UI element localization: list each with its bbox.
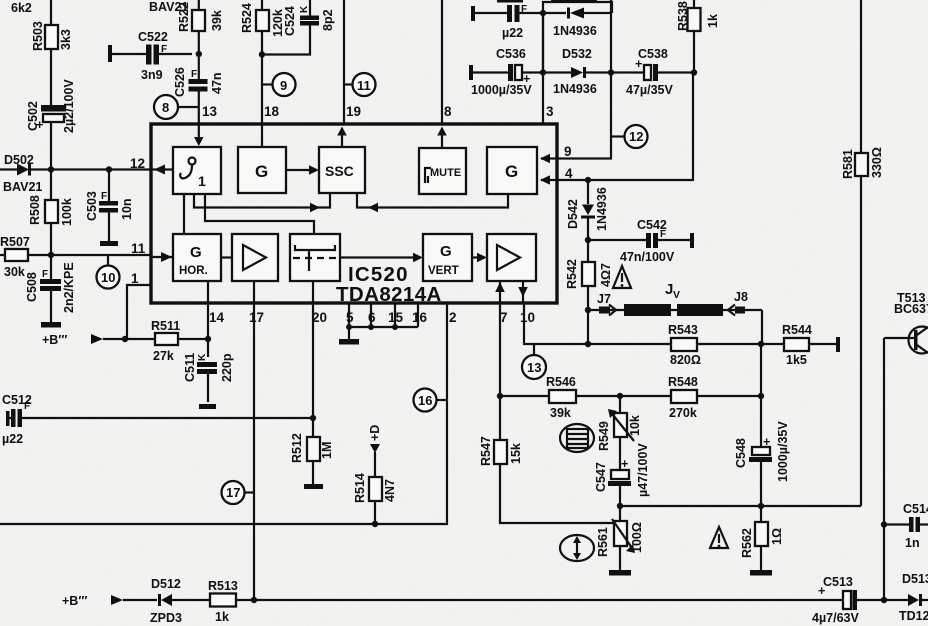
capacitor C547 bbox=[594, 443, 650, 506]
pin 19 wire from top bbox=[344, 0, 361, 124]
svg-text:1: 1 bbox=[198, 173, 206, 189]
rheostat R561 bbox=[596, 506, 644, 570]
capacitor C502 bbox=[26, 79, 76, 133]
pin 10 wire bbox=[520, 303, 671, 347]
svg-text:R524: R524 bbox=[240, 3, 254, 33]
capacitor C514 bbox=[884, 502, 928, 550]
wire vertical left rail x=51 top bbox=[50, 0, 52, 322]
wire jumper row bbox=[588, 310, 762, 344]
svg-text:C536: C536 bbox=[496, 47, 526, 61]
capacitor C512 bbox=[2, 393, 32, 446]
wire R542 down to pin10 row bbox=[587, 310, 589, 344]
svg-text:220p: 220p bbox=[220, 353, 234, 382]
svg-text:G: G bbox=[255, 162, 268, 181]
resistor label 6k2 (cut component top-left) bbox=[11, 1, 32, 15]
resistor R543 bbox=[668, 323, 784, 367]
diode D531 bbox=[543, 2, 612, 38]
pin 8 arrow from MUTE bbox=[437, 127, 447, 149]
svg-text:D513: D513 bbox=[902, 572, 928, 586]
bottom rail +B prime feed bbox=[62, 594, 928, 608]
svg-text:ZPD3: ZPD3 bbox=[150, 611, 182, 625]
svg-text:8: 8 bbox=[444, 104, 452, 119]
svg-text:C503: C503 bbox=[85, 191, 99, 221]
svg-text:30k: 30k bbox=[4, 265, 25, 279]
svg-text:µ22: µ22 bbox=[2, 432, 23, 446]
svg-text:C547: C547 bbox=[594, 462, 608, 492]
svg-text:2µ2/100V: 2µ2/100V bbox=[62, 79, 76, 133]
svg-text:4: 4 bbox=[565, 166, 573, 181]
svg-text:10n: 10n bbox=[120, 198, 134, 220]
svg-text:3n9: 3n9 bbox=[141, 68, 163, 82]
pin 9 arrow into G right bbox=[540, 154, 557, 164]
transistor T513 bbox=[884, 291, 928, 354]
svg-text:39k: 39k bbox=[550, 406, 571, 420]
resistor R544 bbox=[782, 323, 840, 367]
svg-text:1n: 1n bbox=[905, 536, 920, 550]
wire C526 to pin 13 bbox=[198, 92, 200, 125]
capacitor C508 bbox=[25, 262, 76, 313]
svg-text:1Ω: 1Ω bbox=[770, 528, 784, 545]
svg-text:R546: R546 bbox=[546, 375, 576, 389]
feedback wire block1 to SSC bottom bbox=[194, 193, 330, 212]
svg-text:F: F bbox=[101, 191, 107, 202]
svg-text:1k: 1k bbox=[706, 14, 720, 28]
svg-text:4Ω7: 4Ω7 bbox=[599, 263, 613, 287]
connector J8 bbox=[728, 290, 748, 316]
svg-text:3k3: 3k3 bbox=[59, 29, 73, 50]
svg-text:4µ7/63V: 4µ7/63V bbox=[812, 611, 859, 625]
svg-text:20: 20 bbox=[312, 310, 327, 325]
svg-text:R512: R512 bbox=[290, 433, 304, 463]
svg-text:K: K bbox=[197, 353, 208, 361]
jumper link Jv bars bbox=[624, 281, 723, 316]
resistor R511 bbox=[151, 319, 180, 363]
resistor R548 bbox=[668, 375, 698, 420]
svg-text:F: F bbox=[660, 229, 666, 240]
resistor R581 long right rail bbox=[841, 0, 884, 506]
svg-text:R547: R547 bbox=[479, 436, 493, 466]
svg-text:2n2/KPE: 2n2/KPE bbox=[62, 262, 76, 313]
block ramp generator bbox=[290, 234, 340, 281]
capacitor C522 bbox=[108, 30, 192, 82]
svg-text:F: F bbox=[161, 44, 167, 55]
svg-text:19: 19 bbox=[346, 104, 361, 119]
capacitor C526 bbox=[173, 67, 224, 97]
svg-text:C548: C548 bbox=[734, 438, 748, 468]
svg-text:47n: 47n bbox=[210, 72, 224, 94]
resistor R547 bbox=[479, 436, 620, 523]
node 9 bbox=[262, 73, 296, 96]
capacitor C548 bbox=[734, 344, 790, 506]
capacitor C536 bbox=[469, 47, 543, 97]
svg-text:D542: D542 bbox=[566, 199, 580, 229]
block G VERT bbox=[423, 234, 472, 281]
svg-text:15k: 15k bbox=[509, 443, 523, 464]
svg-text:R542: R542 bbox=[565, 259, 579, 289]
pin 11 input arrow bbox=[151, 252, 173, 262]
svg-text:C514: C514 bbox=[903, 502, 928, 516]
svg-text:R511: R511 bbox=[151, 319, 180, 333]
svg-text:TDA8214A: TDA8214A bbox=[336, 283, 442, 306]
potentiometer R549 bbox=[597, 396, 642, 470]
pin 18 stub bbox=[261, 124, 263, 147]
svg-text:47µ/35V: 47µ/35V bbox=[626, 83, 673, 97]
svg-text:5: 5 bbox=[346, 310, 354, 325]
svg-text:2: 2 bbox=[449, 310, 457, 325]
block SSC bbox=[319, 147, 365, 193]
wire amp1 bottom to pin 17 bbox=[253, 281, 255, 303]
wire pin3 top rail bbox=[542, 13, 544, 73]
svg-text:1000µ/35V: 1000µ/35V bbox=[776, 421, 790, 482]
resistor R512 bbox=[290, 433, 334, 484]
capacitor C542 bbox=[588, 218, 694, 264]
svg-text:6: 6 bbox=[368, 310, 376, 325]
pin 13 label bbox=[202, 104, 218, 119]
node 10 bbox=[97, 255, 120, 289]
svg-text:C508: C508 bbox=[25, 272, 39, 302]
resistor R522 bbox=[177, 0, 224, 79]
pin 12 label bbox=[130, 156, 145, 171]
pin 18 label bbox=[264, 104, 280, 119]
pin 1 wire bbox=[127, 271, 151, 339]
pin 11 label bbox=[131, 241, 146, 256]
ground below C508 bbox=[41, 322, 61, 328]
node junction C536 D532 bbox=[540, 69, 546, 75]
svg-text:V: V bbox=[673, 289, 680, 301]
svg-text:1N4936: 1N4936 bbox=[595, 187, 609, 231]
warning triangle near R542 bbox=[613, 266, 631, 288]
svg-text:C502: C502 bbox=[26, 101, 40, 131]
resistor R503 bbox=[31, 21, 73, 51]
svg-text:TD12: TD12 bbox=[899, 609, 928, 623]
pin 12 output arrow bbox=[151, 165, 173, 175]
node junction D542 C542 bbox=[585, 237, 591, 243]
pin 2 wire loop bbox=[0, 303, 457, 527]
svg-text:12: 12 bbox=[130, 156, 145, 171]
diode D532 bbox=[543, 47, 611, 96]
pin 4 route wire bbox=[557, 73, 693, 184]
pin 13 arrow into block 1 bbox=[194, 124, 204, 146]
svg-text:270k: 270k bbox=[669, 406, 697, 420]
svg-text:100k: 100k bbox=[60, 198, 74, 226]
capacitor C532 bbox=[471, 4, 543, 40]
IC520 box bbox=[151, 124, 557, 303]
warning triangle near R562 bbox=[710, 527, 728, 548]
block G HOR bbox=[173, 234, 221, 281]
svg-text:R561: R561 bbox=[596, 527, 610, 557]
svg-text:11: 11 bbox=[131, 241, 146, 256]
svg-text:1000µ/35V: 1000µ/35V bbox=[471, 83, 532, 97]
svg-text:1k5: 1k5 bbox=[786, 353, 807, 367]
ground below R561 bbox=[609, 570, 631, 576]
svg-text:12: 12 bbox=[629, 129, 643, 144]
svg-text:D512: D512 bbox=[151, 577, 181, 591]
svg-text:10: 10 bbox=[520, 310, 535, 325]
svg-text:100Ω: 100Ω bbox=[630, 522, 644, 553]
pin 4 arrow into G right bbox=[540, 175, 557, 185]
svg-text:R581: R581 bbox=[841, 149, 855, 179]
diode D542 bbox=[566, 180, 609, 240]
node 8 bbox=[154, 95, 199, 119]
wire amp2 to pin 7 arrow up bbox=[495, 281, 505, 303]
svg-text:C511: C511 bbox=[183, 353, 197, 382]
ground below R512 bbox=[304, 484, 323, 489]
svg-text:F: F bbox=[24, 401, 30, 412]
svg-text:R549: R549 bbox=[597, 421, 611, 451]
capacitor C538 bbox=[611, 47, 694, 97]
block sync separator 1 bbox=[173, 147, 221, 194]
block amp 2 bbox=[487, 234, 536, 281]
svg-text:17: 17 bbox=[226, 485, 240, 500]
capacitor C513 bbox=[812, 575, 859, 625]
node 16 bbox=[414, 389, 448, 412]
wire C512 to pin20 bbox=[22, 417, 313, 419]
svg-text:7: 7 bbox=[500, 310, 508, 325]
diode D512 bbox=[150, 577, 182, 625]
node junction D532 C538 bbox=[608, 69, 614, 75]
svg-text:27k: 27k bbox=[153, 349, 174, 363]
svg-text:16: 16 bbox=[412, 310, 428, 325]
svg-text:D502: D502 bbox=[4, 153, 34, 167]
svg-text:C526: C526 bbox=[173, 67, 187, 97]
wire block1 to ramp block bbox=[205, 194, 314, 234]
svg-text:SSC: SSC bbox=[325, 163, 354, 179]
svg-text:R538: R538 bbox=[676, 1, 690, 31]
svg-text:6k2: 6k2 bbox=[11, 1, 32, 15]
svg-text:C513: C513 bbox=[823, 575, 853, 589]
svg-text:+D: +D bbox=[368, 425, 382, 441]
svg-text:J8: J8 bbox=[734, 290, 748, 304]
svg-text:+B′′′: +B′′′ bbox=[42, 333, 67, 347]
svg-text:µ22: µ22 bbox=[502, 26, 523, 40]
pin 17 wire bbox=[249, 303, 264, 600]
capacitor C503 bbox=[85, 170, 134, 242]
pin 3 wire bbox=[543, 13, 554, 124]
capacitor C524 bbox=[262, 0, 335, 55]
pin 19 arrow from SSC bbox=[337, 127, 347, 148]
svg-text:R507: R507 bbox=[0, 235, 30, 249]
svg-text:BAV21: BAV21 bbox=[3, 180, 42, 194]
svg-text:1N4936: 1N4936 bbox=[553, 24, 597, 38]
svg-text:R522: R522 bbox=[177, 2, 191, 32]
resistor R513 bbox=[208, 579, 238, 624]
wire G to SSC arrow bbox=[286, 165, 319, 175]
wire G HOR to amp1 bbox=[221, 256, 232, 258]
node junction top rail bbox=[540, 10, 546, 16]
wire row y=506 bbox=[617, 503, 861, 509]
pin 8 wire from top bbox=[442, 0, 452, 124]
svg-text:F: F bbox=[191, 69, 197, 80]
wire row y=396 bbox=[500, 393, 764, 399]
svg-text:11: 11 bbox=[357, 78, 371, 93]
block amp 1 bbox=[232, 234, 278, 281]
wire pin12 net bbox=[51, 166, 151, 172]
svg-text:9: 9 bbox=[280, 78, 287, 93]
svg-text:R544: R544 bbox=[782, 323, 812, 337]
svg-text:13: 13 bbox=[527, 360, 541, 375]
svg-text:R503: R503 bbox=[31, 21, 45, 51]
svg-text:J7: J7 bbox=[597, 292, 611, 306]
svg-text:D532: D532 bbox=[562, 47, 592, 61]
wire D531 up right bbox=[610, 0, 612, 73]
text BAV21 cut top bbox=[149, 0, 188, 14]
block G (killer) bbox=[238, 147, 286, 193]
node junction pin11/R507 bbox=[48, 252, 54, 258]
svg-text:HOR.: HOR. bbox=[179, 265, 208, 277]
node junction at D502 bbox=[48, 166, 54, 172]
pins 5 6 15 16 ground bus bbox=[346, 303, 428, 339]
resistor R542 bbox=[565, 240, 613, 310]
svg-text:C538: C538 bbox=[638, 47, 668, 61]
pin 20 wire bbox=[310, 303, 327, 437]
svg-text:3: 3 bbox=[546, 104, 554, 119]
svg-text:15: 15 bbox=[388, 310, 404, 325]
svg-text:G: G bbox=[190, 244, 202, 261]
resistor R508 bbox=[28, 195, 74, 226]
resistor R546 bbox=[546, 375, 576, 420]
ground below R562 bbox=[750, 570, 772, 576]
node junction jumper row bbox=[585, 307, 591, 313]
svg-text:14: 14 bbox=[209, 310, 225, 325]
trimmer adjust icon bbox=[560, 424, 594, 452]
diode D513 bbox=[899, 572, 928, 623]
node 17 bbox=[222, 481, 255, 504]
svg-text:10: 10 bbox=[101, 270, 115, 285]
svg-text:+B′′′: +B′′′ bbox=[62, 594, 87, 608]
svg-text:1: 1 bbox=[131, 271, 139, 286]
svg-text:µ47/100V: µ47/100V bbox=[636, 443, 650, 497]
connector J7 bbox=[597, 292, 616, 316]
wire amp2 to pin 10 arrow down bbox=[518, 281, 528, 303]
block MUTE bbox=[419, 148, 466, 194]
node 11 bbox=[344, 73, 376, 96]
svg-text:R513: R513 bbox=[208, 579, 238, 593]
svg-text:8: 8 bbox=[162, 100, 169, 115]
ground C503 bbox=[100, 241, 118, 246]
node junction C538 R538 bbox=[691, 69, 697, 75]
wire G VERT to amp2 arrow bbox=[472, 253, 487, 263]
resistor R524 bbox=[240, 0, 285, 124]
svg-text:17: 17 bbox=[249, 310, 264, 325]
svg-text:MUTE: MUTE bbox=[430, 167, 461, 179]
svg-text:820Ω: 820Ω bbox=[670, 353, 701, 367]
svg-text:F: F bbox=[521, 4, 527, 15]
svg-text:R548: R548 bbox=[668, 375, 698, 389]
pin 9 route wire bbox=[557, 73, 611, 160]
svg-text:13: 13 bbox=[202, 104, 218, 119]
resistor R538 bbox=[676, 0, 720, 73]
node 12 bbox=[611, 125, 648, 148]
svg-text:C524: C524 bbox=[283, 6, 297, 36]
wire ramp bottom to pin 20 bbox=[312, 281, 314, 303]
svg-text:9: 9 bbox=[564, 144, 572, 159]
svg-text:R514: R514 bbox=[353, 473, 367, 503]
svg-text:1k: 1k bbox=[215, 610, 229, 624]
node 13 bbox=[522, 344, 546, 379]
wire block1 to G HOR bbox=[183, 194, 185, 234]
wire G HOR bottom to pin 14 bbox=[207, 281, 209, 303]
svg-text:G: G bbox=[440, 243, 452, 260]
resistor R562 bbox=[740, 506, 784, 570]
cut label sliver C532 bbox=[497, 0, 597, 3]
IC text TDA8214A bbox=[336, 283, 442, 306]
wire transistor base rail down bbox=[881, 338, 887, 600]
svg-text:R562: R562 bbox=[740, 528, 754, 558]
+B''' feed upper bbox=[42, 333, 208, 347]
pin 14 wire bbox=[205, 303, 225, 402]
svg-text:330Ω: 330Ω bbox=[870, 147, 884, 178]
resistor R507 bbox=[0, 235, 151, 279]
svg-text:4N7: 4N7 bbox=[383, 479, 397, 502]
svg-text:39k: 39k bbox=[210, 10, 224, 31]
svg-text:R508: R508 bbox=[28, 195, 42, 225]
svg-text:47n/100V: 47n/100V bbox=[620, 250, 675, 264]
svg-text:BC637: BC637 bbox=[894, 302, 928, 316]
svg-text:18: 18 bbox=[264, 104, 280, 119]
capacitor C511 bbox=[183, 353, 234, 382]
svg-text:1M: 1M bbox=[320, 442, 334, 459]
svg-text:16: 16 bbox=[418, 393, 432, 408]
svg-text:K: K bbox=[299, 5, 310, 13]
ground below C511 bbox=[199, 404, 216, 409]
svg-text:C522: C522 bbox=[138, 30, 168, 44]
pin 7 wire bbox=[497, 303, 508, 440]
wire ramp to G VERT arrow bbox=[340, 253, 423, 263]
block G (right) bbox=[487, 147, 537, 194]
IC text IC520 bbox=[348, 263, 409, 286]
diode D502 bbox=[0, 153, 51, 194]
svg-text:VERT: VERT bbox=[428, 265, 459, 277]
svg-text:R543: R543 bbox=[668, 323, 698, 337]
svg-text:G: G bbox=[505, 162, 518, 181]
svg-text:10k: 10k bbox=[628, 415, 642, 436]
adjust icon 2 bbox=[560, 535, 594, 561]
feedback wire SSC bottom to G right bottom bbox=[357, 193, 508, 212]
svg-text:1N4936: 1N4936 bbox=[553, 82, 597, 96]
svg-text:8p2: 8p2 bbox=[321, 9, 335, 31]
ground below pin5 bbox=[339, 339, 359, 345]
resistor R514 and +D arrow bbox=[353, 425, 397, 524]
svg-text:F: F bbox=[42, 269, 48, 280]
